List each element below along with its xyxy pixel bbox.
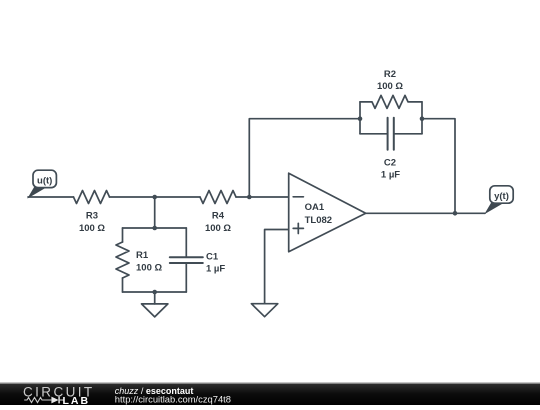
svg-text:http://circuitlab.com/czq74t8: http://circuitlab.com/czq74t8	[115, 394, 231, 405]
node R2C2 right	[420, 116, 425, 121]
resistor R3	[74, 191, 110, 204]
wire noninverting input	[265, 230, 289, 304]
capacitor C2 lead left	[360, 133, 388, 135]
wire node A down	[154, 197, 156, 228]
svg-text:R1: R1	[136, 250, 149, 261]
capacitor C2 plates	[388, 118, 394, 150]
op-amp OA1 triangle	[289, 173, 366, 252]
svg-text:TL082: TL082	[305, 215, 332, 226]
svg-text:u(t): u(t)	[37, 175, 52, 186]
CircuitLab logo zigzag and diode	[24, 397, 64, 404]
capacitor C1 lead top	[185, 228, 187, 257]
node A junction	[152, 195, 157, 200]
wire input left	[28, 196, 74, 198]
wire feedback box left side	[359, 102, 361, 134]
wire output	[366, 212, 485, 214]
node R2C2 left	[358, 116, 363, 121]
wire feedback up and across	[249, 119, 360, 197]
ground symbol R1C1	[142, 304, 168, 317]
terminal u(t)	[27, 170, 56, 198]
terminal y(t)	[484, 186, 513, 214]
wire R3 to R4	[110, 196, 201, 198]
svg-text:C1: C1	[206, 252, 219, 263]
wire feedback box right side	[421, 102, 423, 134]
svg-text:y(t): y(t)	[494, 191, 509, 202]
svg-text:100 Ω: 100 Ω	[136, 263, 162, 274]
svg-text:LAB: LAB	[63, 395, 91, 405]
resistor R4	[200, 191, 236, 204]
op-amp plus mark	[293, 223, 303, 233]
svg-text:R4: R4	[212, 210, 225, 221]
wire R4 to op-amp	[236, 196, 289, 198]
resistor R2 with leads	[360, 95, 422, 108]
capacitor C2 lead right	[394, 133, 422, 135]
node output	[453, 211, 458, 216]
svg-text:OA1: OA1	[305, 202, 325, 213]
ground symbol op-amp	[251, 304, 277, 317]
node bottom rail	[152, 290, 157, 295]
wire bottom rail R1C1	[123, 291, 187, 293]
ground stub R1C1	[154, 292, 156, 304]
svg-text:100 Ω: 100 Ω	[205, 223, 231, 234]
resistor R1	[116, 242, 129, 278]
svg-text:100 Ω: 100 Ω	[79, 223, 105, 234]
wire R1 bottom lead	[122, 278, 124, 292]
svg-text:C2: C2	[384, 158, 396, 169]
svg-text:R2: R2	[384, 69, 396, 80]
wire feedback right to output	[422, 119, 455, 214]
capacitor C1 plates	[170, 257, 203, 263]
node feedback tap	[247, 195, 252, 200]
svg-text:R3: R3	[86, 210, 98, 221]
svg-text:100 Ω: 100 Ω	[377, 81, 403, 92]
svg-text:1 µF: 1 µF	[206, 264, 225, 275]
wire top rail R1C1	[123, 227, 187, 229]
node top rail	[152, 226, 157, 231]
svg-text:1 µF: 1 µF	[381, 170, 400, 181]
capacitor C1 lead bottom	[185, 263, 187, 292]
op-amp minus mark	[293, 196, 303, 198]
wire R1 top lead	[122, 228, 124, 242]
